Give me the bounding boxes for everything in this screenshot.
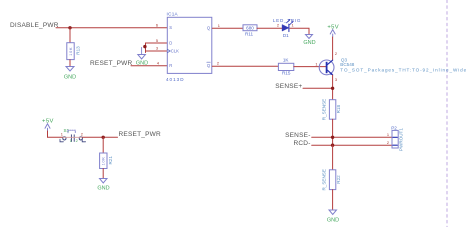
wire +5V to switch S1 <box>47 131 49 137</box>
svg-text:R18: R18 <box>336 105 341 114</box>
svg-text:2: 2 <box>387 140 389 145</box>
wire CLK pin to ground net <box>146 50 168 52</box>
wire IC Q output to R11 <box>212 27 243 29</box>
svg-text:1K: 1K <box>283 58 290 63</box>
wire R18 to SENSE- <box>332 119 334 145</box>
ground symbol under R13 <box>66 67 74 72</box>
wire through switch contacts <box>63 136 82 138</box>
svg-text:DISABLE_PWR: DISABLE_PWR <box>10 22 59 29</box>
junction node RCD <box>331 144 334 147</box>
svg-text:10K: 10K <box>102 156 106 165</box>
wire R22 to ground <box>332 190 334 210</box>
svg-text:5: 5 <box>156 38 158 43</box>
svg-text:2: 2 <box>81 131 83 136</box>
wire RCD junction down to R22 <box>332 145 334 170</box>
svg-text:S: S <box>169 25 172 30</box>
svg-text:RCD-: RCD- <box>293 140 310 147</box>
wire +5V to Q3 collector <box>332 37 334 60</box>
LED D1 <box>282 25 289 31</box>
junction node RESET_PWR/R21 <box>102 136 105 139</box>
svg-text:1: 1 <box>70 139 72 143</box>
svg-text:3: 3 <box>156 45 158 50</box>
svg-text:GND: GND <box>136 60 148 66</box>
ground symbol after LED <box>306 35 313 39</box>
svg-text:R_SENSE: R_SENSE <box>322 169 327 190</box>
wire R11 to LED D1 <box>257 27 282 29</box>
junction node DISABLE_PWR/R13 <box>68 26 71 29</box>
wire SENSE+ <box>303 87 333 89</box>
wire LED to ground <box>290 28 309 34</box>
svg-text:2: 2 <box>76 139 78 143</box>
svg-text:R: R <box>169 63 172 68</box>
svg-text:10K: 10K <box>69 47 73 56</box>
LED arrows <box>287 19 290 22</box>
resistor R22 (R_SENSE) <box>329 170 335 190</box>
connector P2 <box>392 130 398 148</box>
wire Q3 emitter to SENSE+ junction <box>332 75 334 100</box>
svg-text:GND: GND <box>303 40 315 46</box>
junction node SENSE- <box>331 136 334 139</box>
resistor R15 <box>278 63 293 70</box>
svg-text:R11: R11 <box>245 32 254 37</box>
wire vertical D/CLK ground <box>145 43 147 53</box>
svg-text:1: 1 <box>292 23 294 28</box>
svg-text:6: 6 <box>156 23 158 28</box>
junction node D/CLK <box>143 45 146 48</box>
svg-text:R13: R13 <box>76 46 81 55</box>
ground symbol for D/CLK <box>141 48 143 55</box>
junction node SENSE+/emitter <box>331 87 334 90</box>
wire RESET_PWR to IC1A pin R <box>131 65 168 67</box>
pin name CLK with clock mark <box>167 49 170 52</box>
wire SENSE- to connector P2 pin 1 <box>312 136 392 138</box>
svg-text:R15: R15 <box>282 71 291 76</box>
svg-text:P2: P2 <box>391 125 397 130</box>
svg-text:S1: S1 <box>64 128 70 133</box>
wire S1 to RESET_PWR junction <box>82 136 117 138</box>
wire DISABLE_PWR to IC1A pin S <box>56 27 168 29</box>
svg-text:1: 1 <box>218 23 220 28</box>
resistor R11 <box>243 25 257 31</box>
svg-text:4013D: 4013D <box>166 77 185 82</box>
svg-text:2: 2 <box>217 61 219 66</box>
svg-text:BC548: BC548 <box>340 62 354 67</box>
svg-text:2: 2 <box>335 51 337 56</box>
wire junction to R13 <box>69 28 71 43</box>
svg-text:GND: GND <box>64 75 76 81</box>
op-amp/IC box IC1A 4013 flip-flop <box>167 17 212 73</box>
wire R13 to ground <box>69 60 71 67</box>
wire R15 to Q3 base <box>294 66 326 68</box>
svg-text:2: 2 <box>277 23 279 28</box>
resistor R18 (R_SENSE) <box>329 100 335 120</box>
svg-text:GND: GND <box>97 185 109 191</box>
transistor Q3 BC548 <box>319 60 334 75</box>
svg-text:R21: R21 <box>108 156 113 165</box>
svg-text:CLK: CLK <box>171 49 179 54</box>
svg-text:IC1A: IC1A <box>167 12 179 17</box>
ground symbol under R22 <box>329 210 337 215</box>
wire RCD to connector P2 pin 2 <box>312 144 392 146</box>
svg-text:3: 3 <box>335 77 337 82</box>
svg-text:R_SENSE: R_SENSE <box>322 99 327 120</box>
wire IC Qbar output to R15 <box>212 65 278 67</box>
svg-text:RESET_PWR: RESET_PWR <box>90 60 133 67</box>
wire junction to R21 <box>102 137 104 153</box>
svg-text:1: 1 <box>387 132 389 137</box>
svg-text:1: 1 <box>315 61 317 66</box>
svg-text:RESET_PWR: RESET_PWR <box>119 131 162 138</box>
svg-text:PWROUT1: PWROUT1 <box>399 128 404 151</box>
resistor R21 <box>100 153 107 169</box>
ground symbol under R21 <box>100 179 108 184</box>
sheet border dashed line <box>446 0 448 227</box>
svg-text:D1: D1 <box>283 33 289 38</box>
svg-text:R22: R22 <box>336 175 341 184</box>
svg-text:D: D <box>169 40 172 45</box>
svg-text:SENSE-: SENSE- <box>285 132 311 139</box>
wire R21 to ground <box>102 169 104 179</box>
svg-text:680: 680 <box>246 26 254 31</box>
svg-text:TO_SOT_Packages_THT:TO-92_Inli: TO_SOT_Packages_THT:TO-92_Inline_Wide <box>340 68 467 73</box>
svg-text:1: 1 <box>61 131 63 136</box>
resistor R13 <box>67 43 74 60</box>
svg-text:GND: GND <box>327 218 339 224</box>
svg-text:SENSE+: SENSE+ <box>275 83 302 90</box>
wire D pin to ground net <box>146 42 168 44</box>
